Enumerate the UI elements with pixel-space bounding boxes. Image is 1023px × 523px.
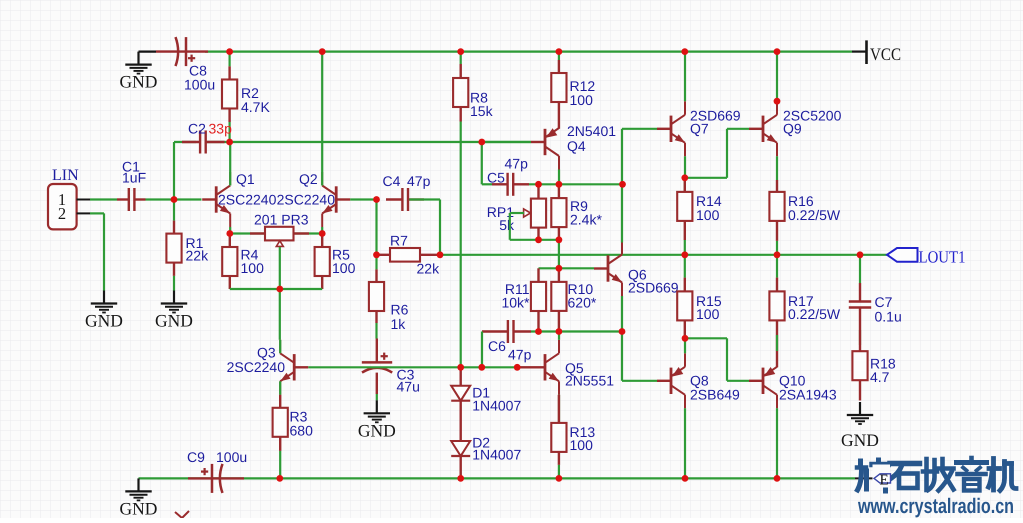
capacitor C7 0.1u <box>849 283 871 330</box>
label label R13 <box>570 424 596 453</box>
junction dot junction Q6 emitter net <box>619 328 626 335</box>
junction dot junction R7 right <box>437 251 444 258</box>
wire Q1 collector up <box>229 142 231 186</box>
wire Q10 collector to rail <box>776 408 778 478</box>
resistor R16 0.22/5W <box>769 180 784 241</box>
junction dot junction Q5 base <box>514 364 521 371</box>
junction dot junction Q8-rail <box>682 475 689 482</box>
junction dot junction C5 drop <box>478 139 485 146</box>
resistor R12 100 <box>551 60 566 102</box>
svg-text:C6: C6 <box>488 338 506 354</box>
svg-text:Q1: Q1 <box>236 171 255 187</box>
junction dot node input <box>171 196 178 203</box>
label label C4 <box>383 173 401 189</box>
wire C5 left <box>482 183 492 185</box>
svg-text:100u: 100u <box>216 449 247 465</box>
svg-text:47p: 47p <box>505 156 529 172</box>
wire darlington v <box>726 129 728 178</box>
svg-text:33p: 33p <box>209 121 233 137</box>
ground GND bottom-left <box>120 478 158 518</box>
resistor R1 22k <box>166 221 181 276</box>
wire Q2 emitter down <box>321 227 323 234</box>
wire green segment <box>776 335 778 351</box>
wire D2 to rail <box>460 456 462 478</box>
svg-text:GND: GND <box>120 498 158 518</box>
wire up to Q7 base <box>621 129 623 185</box>
svg-text:2N5551: 2N5551 <box>565 373 614 389</box>
wire Q7 collector to VCC <box>684 52 686 102</box>
svg-text:100: 100 <box>696 207 720 223</box>
wire D1-D2 <box>460 401 462 441</box>
wire C2 left <box>174 141 196 143</box>
transistor Q7 2SD669 <box>657 101 685 156</box>
wire Q9 emitter down <box>776 156 778 180</box>
wire Q8 collector to rail <box>684 408 686 478</box>
label label Q7 <box>690 108 741 137</box>
wire node to R1 <box>173 200 175 221</box>
label label C7 <box>875 294 902 325</box>
svg-text:R7: R7 <box>390 233 408 249</box>
junction dot junction RP1 top <box>535 181 542 188</box>
svg-text:1N4007: 1N4007 <box>472 398 521 414</box>
port LOUT1 <box>860 248 966 267</box>
wire R11 top link <box>539 267 559 269</box>
wire PR3 wiper down <box>279 247 281 289</box>
svg-text:1k: 1k <box>391 316 407 332</box>
label label C1 <box>122 159 146 186</box>
label label R15 <box>696 293 722 322</box>
potentiometer PR3 201 <box>250 227 309 247</box>
label label R12 <box>570 78 596 108</box>
wire bias line <box>308 366 517 368</box>
transistor Q3 2SC2240 <box>280 340 308 395</box>
wire bottom rail <box>139 477 856 479</box>
svg-text:2SB649: 2SB649 <box>690 387 740 403</box>
wire Q2 base to C4 node <box>350 198 376 200</box>
wire LIN pin2 down <box>103 213 105 290</box>
svg-text:GND: GND <box>120 72 158 92</box>
wire to Q10 base <box>727 380 749 382</box>
svg-text:100u: 100u <box>184 77 215 93</box>
junction dot junction R7 left <box>373 251 380 258</box>
svg-text:Q2: Q2 <box>299 171 318 187</box>
resistor R8 15k <box>453 64 468 122</box>
svg-text:0.22/5W: 0.22/5W <box>788 306 841 322</box>
port E label <box>873 465 891 489</box>
wire Q3 emitter <box>279 381 281 395</box>
label R11 <box>501 281 530 311</box>
wire Q6 emitter down <box>621 296 623 332</box>
wire Q6e down to Q8 base <box>621 332 623 381</box>
svg-text:www.crystalradio.cn: www.crystalradio.cn <box>857 495 1014 518</box>
wire R8 top <box>460 52 462 64</box>
resistor R10 620* <box>551 268 566 331</box>
junction dot junction Q6 base net <box>556 265 563 272</box>
diode D1 1N4007 <box>451 386 470 401</box>
svg-text:GND: GND <box>358 420 396 440</box>
wire Q7 emitter down <box>684 156 686 178</box>
label label R3 <box>290 409 314 439</box>
svg-text:680: 680 <box>290 423 314 439</box>
diode D2 1N4007 <box>451 441 470 456</box>
wire Q7 base line <box>622 128 657 130</box>
wire C7 to R18 <box>859 330 861 345</box>
svg-text:2SA1943: 2SA1943 <box>779 387 837 403</box>
svg-text:E: E <box>880 473 889 489</box>
wire C3 to gnd <box>376 394 378 400</box>
svg-text:LOUT1: LOUT1 <box>919 248 966 267</box>
junction dot junction C4-Q2base <box>373 196 380 203</box>
junction dot junction D1-bias <box>457 364 464 371</box>
wire LIN pin1 to C1 <box>90 198 117 200</box>
svg-text:LIN: LIN <box>52 167 79 184</box>
junction dot junction R10 bottom <box>556 328 563 335</box>
junction dot junction Q9c-VCC <box>774 48 781 55</box>
junction dot junction RP1 bottom <box>535 236 542 243</box>
wire C5 left vert <box>481 142 483 184</box>
wire C2 node to Q4 base <box>207 141 531 143</box>
ground GND (C3) <box>358 400 396 440</box>
resistor R5 100 <box>315 234 330 290</box>
transistor Q4 2N5401 <box>531 115 559 170</box>
svg-text:2SC2240: 2SC2240 <box>277 192 336 208</box>
wire C4 down to R7 <box>439 200 441 255</box>
svg-text:22k: 22k <box>186 248 210 264</box>
resistor R15 100 <box>677 278 692 339</box>
svg-text:2: 2 <box>58 204 66 223</box>
ground GND (LIN pin2) <box>85 291 123 331</box>
transistor Q6 2SD669 <box>594 241 622 296</box>
label label Q2 <box>299 171 318 187</box>
transistor Q10 2SA1943 <box>749 353 777 408</box>
label label R9 <box>570 198 602 228</box>
label label Q1 <box>236 171 255 187</box>
wire C2 to input node <box>173 142 175 200</box>
wire R6 to C3 <box>375 323 377 339</box>
wire C1 to Q1 base node <box>146 198 202 200</box>
resistor R11 10k* <box>531 268 546 331</box>
capacitor C3 47u (electrolytic) <box>362 339 392 395</box>
wire Q9 collector to VCC <box>776 52 778 102</box>
svg-text:Q9: Q9 <box>783 121 802 137</box>
junction dot junction R8-VCC <box>457 48 464 55</box>
svg-text:47p: 47p <box>508 347 532 363</box>
label label Q5 <box>565 360 614 389</box>
ground GND (R18) <box>841 402 879 450</box>
junction dot junction R9 top <box>556 181 563 188</box>
svg-text:2N5401: 2N5401 <box>567 123 616 139</box>
wire Q4 collector down <box>558 170 560 185</box>
junction dot node Q1 collector <box>226 139 233 146</box>
svg-text:C4: C4 <box>383 173 401 189</box>
svg-text:100: 100 <box>696 306 720 322</box>
ground (top left) <box>139 50 157 52</box>
junction dot junction Q6 collector net <box>619 181 626 188</box>
wire LIN pin2 <box>90 212 104 214</box>
junction dot junction Q7 emitter <box>681 174 688 181</box>
wire R4-R5 bottoms <box>230 288 322 290</box>
svg-text:100: 100 <box>570 92 594 108</box>
junction dot junction D2-rail <box>457 475 464 482</box>
wire C4 right <box>409 198 440 200</box>
wire Q6 base line <box>559 267 594 269</box>
transistor Q5 2N5551 <box>531 340 559 395</box>
junction dot junction Q10-rail <box>774 475 781 482</box>
cut-off component mark <box>175 511 189 518</box>
transistor Q8 2SB649 <box>657 353 685 408</box>
svg-text:Q4: Q4 <box>567 138 586 154</box>
pin 1 stub <box>77 199 90 201</box>
wire RP1 wiper down <box>509 213 511 240</box>
C8 plus sign <box>188 55 195 62</box>
capacitor C4 <box>386 188 424 211</box>
resistor R14 100 <box>677 178 692 240</box>
ground GND top-left <box>120 52 158 92</box>
junction dot junction R12-VCC <box>556 48 563 55</box>
capacitor C5 <box>492 173 529 196</box>
wire R14 bottom <box>684 240 686 255</box>
wire R8 down to bias <box>460 122 462 368</box>
port E <box>855 477 875 479</box>
wire output line <box>440 254 860 256</box>
junction dot junction Q2 emitter <box>319 230 326 237</box>
svg-text:5k: 5k <box>499 217 515 233</box>
label label Q8 <box>690 373 740 403</box>
label label D2 <box>472 435 521 463</box>
wire RP1-R9 bottoms <box>539 239 559 241</box>
svg-text:47p: 47p <box>407 173 431 189</box>
wire R2 top <box>229 52 231 67</box>
wire Q1 emitter down <box>229 227 231 234</box>
svg-text:201 PR3: 201 PR3 <box>254 212 309 228</box>
label label Q3 <box>257 345 276 361</box>
wire darlington h <box>685 177 727 179</box>
transistor Q9 2SC5200 <box>749 101 777 156</box>
wire Q8 base line <box>622 380 657 382</box>
junction dot junction R2-VCC <box>226 48 233 55</box>
capacitor C1 <box>117 188 146 211</box>
wire to C7 <box>859 255 861 283</box>
svg-text:10k*: 10k* <box>501 295 530 311</box>
wire to R15 <box>684 255 686 278</box>
ground GND (R1) <box>155 291 193 331</box>
label label Q9 <box>783 108 842 137</box>
label label R17 <box>788 293 841 322</box>
svg-text:15k: 15k <box>470 103 494 119</box>
wire to R6 <box>375 255 377 270</box>
label label Q4 <box>567 123 616 154</box>
svg-text:4.7K: 4.7K <box>241 99 270 115</box>
wire to Q4 base <box>482 141 531 143</box>
capacitor C9 (electrolytic) <box>188 464 244 493</box>
wire R9 bottom down <box>558 240 560 268</box>
wire Q6 collector up <box>621 184 623 242</box>
junction dot junction Q9 collector <box>774 98 781 105</box>
label label Q6 <box>628 267 679 296</box>
resistor R18 4.7 <box>852 330 867 401</box>
junction dot junction Q8 emitter <box>682 335 689 342</box>
junction dot junction Q1 emitter <box>226 230 233 237</box>
wire C5 node line <box>529 183 623 185</box>
capacitor C6 <box>482 320 531 343</box>
wire R2 bottom to node <box>229 122 231 142</box>
svg-text:0.22/5W: 0.22/5W <box>788 207 841 223</box>
svg-text:2SC2240: 2SC2240 <box>218 192 277 208</box>
wire R13 to rail <box>558 465 560 479</box>
wire R17 to Q10 emitter <box>776 330 778 367</box>
label label R8 <box>470 90 494 120</box>
pin 2 stub <box>77 212 90 214</box>
wire Q1 emitter to PR3 <box>230 232 265 234</box>
watermark logo text <box>857 458 1016 491</box>
wire RP1 bottom link <box>510 239 539 241</box>
wire to R14 <box>684 178 686 192</box>
power port VCC <box>852 40 901 64</box>
C9 plus sign <box>201 468 208 475</box>
svg-text:C2: C2 <box>188 121 206 137</box>
junction dot junction Q2c-VCC <box>319 48 326 55</box>
label label C2 <box>188 121 206 137</box>
svg-text:47u: 47u <box>397 379 420 395</box>
wire R12 top <box>558 52 560 60</box>
junction dot junction PR3 wiper <box>276 286 283 293</box>
wire to Q9 base <box>727 128 749 130</box>
resistor R6 1k <box>369 269 384 323</box>
label label R1 <box>186 235 210 264</box>
svg-text:2.4k*: 2.4k* <box>570 212 602 228</box>
wire Q5 base pin <box>517 366 531 368</box>
wire C6 left down <box>481 332 483 368</box>
svg-text:Q7: Q7 <box>690 121 709 137</box>
label label R16 <box>788 193 841 223</box>
resistor R13 100 <box>551 395 566 465</box>
transistor Q1 2SC2240 <box>202 172 230 227</box>
svg-text:1N4007: 1N4007 <box>472 447 521 463</box>
wire darlington2 h <box>685 337 727 339</box>
wire Q3 collector <box>279 340 281 354</box>
svg-text:100: 100 <box>241 260 265 276</box>
capacitor C2 <box>182 131 225 154</box>
svg-text:GND: GND <box>155 311 193 331</box>
svg-text:620*: 620* <box>568 295 597 311</box>
svg-text:100: 100 <box>332 260 356 276</box>
wire PR3 to Q2 emitter <box>294 232 323 234</box>
junction dot junction R16-R17 output <box>774 251 781 258</box>
svg-text:GND: GND <box>85 311 123 331</box>
label label R5 <box>332 247 356 277</box>
wire Q8 emitter up <box>684 338 686 353</box>
wire C6 node line <box>531 330 622 332</box>
resistor R2 4.7K <box>222 66 237 122</box>
resistor R4 100 <box>222 234 237 290</box>
junction dot junction C7 branch <box>857 251 864 258</box>
wire to R17 <box>776 255 778 278</box>
label label R10 <box>568 281 597 311</box>
label label Q10 <box>779 373 837 403</box>
svg-text:2SD669: 2SD669 <box>628 280 679 296</box>
connector LIN <box>48 184 77 229</box>
junction dot junction R13-rail <box>556 475 563 482</box>
junction dot junction Q7c-VCC <box>681 48 688 55</box>
wire R12 to Q4 emitter <box>558 102 560 129</box>
label C8 <box>184 63 215 93</box>
wire down to Q3 collector <box>279 289 281 340</box>
junction dot junction R14-R15 output <box>681 251 688 258</box>
svg-text:22k: 22k <box>417 261 441 277</box>
potentiometer RP1 5k <box>524 184 547 240</box>
resistor R17 0.22/5W <box>769 278 784 330</box>
svg-text:GND: GND <box>841 430 879 450</box>
svg-text:4.7: 4.7 <box>870 369 890 385</box>
svg-text:C5: C5 <box>487 170 505 186</box>
junction dot junction C6-bias <box>478 364 485 371</box>
label label D1 <box>472 385 521 414</box>
wire Q5 collector up <box>558 332 560 340</box>
wire R16 bottom <box>776 241 778 255</box>
label label R6 <box>391 302 409 333</box>
wire node down <box>375 200 377 255</box>
resistor R9 2.4k* <box>551 184 566 240</box>
label label R2 <box>241 85 270 115</box>
svg-text:C9: C9 <box>187 449 205 465</box>
resistor R7 22k <box>377 248 441 262</box>
svg-text:1uF: 1uF <box>122 170 146 186</box>
transistor Q2 2SC2240 <box>322 172 350 227</box>
label label C3 <box>397 367 420 395</box>
svg-text:0.1u: 0.1u <box>875 309 902 325</box>
svg-text:2SC2240: 2SC2240 <box>227 359 286 375</box>
junction dot junction R3-rail <box>276 475 283 482</box>
wire Q5 emitter down <box>558 395 560 423</box>
wire VCC rail <box>205 50 852 52</box>
label label R18 <box>870 356 896 386</box>
wire darlington2 v <box>726 338 728 381</box>
wire R3 to rail <box>279 451 281 479</box>
wire R1 bottom <box>173 276 175 291</box>
wire RP1 wiper <box>510 212 524 214</box>
svg-text:100: 100 <box>570 437 594 453</box>
label label R14 <box>696 193 722 223</box>
capacitor C8 (electrolytic) <box>156 37 208 66</box>
junction dot junction R9 bottom <box>556 236 563 243</box>
svg-text:VCC: VCC <box>870 44 901 64</box>
wire D1 anode <box>460 367 462 385</box>
junction dot junction R11 bottom <box>535 328 542 335</box>
label label R4 <box>241 247 265 277</box>
label label RP1 <box>487 204 515 233</box>
resistor R3 680 <box>273 395 288 451</box>
wire Q2 collector to VCC <box>321 52 323 186</box>
